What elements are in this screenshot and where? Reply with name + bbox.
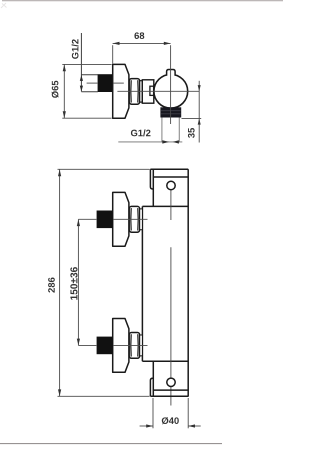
G1/2 label (top-left, rotated) xyxy=(72,39,79,59)
cap on top of valve body (top view) xyxy=(167,70,176,76)
dimension Ø65: dimension line with arrows xyxy=(63,65,66,119)
inlet step notch (top view) xyxy=(150,86,154,95)
dimension 150±36: dimension line with arrows xyxy=(77,219,80,345)
upper inlet union: hex nut xyxy=(129,206,140,232)
lower inlet union: centerline xyxy=(78,344,147,346)
main body bar xyxy=(142,169,188,396)
dimension 68: dimension line with arrows xyxy=(113,42,171,45)
dimension 68: value label xyxy=(134,32,144,39)
wall pipe thread (black) top view xyxy=(98,74,113,92)
150±36 label (rotated) xyxy=(70,267,77,300)
union hex nut (top view) xyxy=(129,79,140,105)
lower inlet union: hex nut xyxy=(129,333,140,359)
G1/2 leader with double arrow at pipe end xyxy=(80,33,83,92)
286 label (rotated) xyxy=(48,278,55,293)
hex nut chamfer arcs (top view) xyxy=(131,80,138,102)
faint corner mark xyxy=(1,3,7,8)
outlet mouth line with G1/2 arrows xyxy=(118,140,182,143)
valve horizontal centerline (top view) xyxy=(117,90,199,92)
body vertical centerline (front view) xyxy=(170,190,172,405)
top mounting bracket xyxy=(150,169,188,206)
top bracket hole xyxy=(167,181,175,189)
Ø40 label xyxy=(162,417,179,424)
Ø65 label (rotated) xyxy=(52,81,59,98)
lower inlet union: escutcheon flange xyxy=(113,319,129,373)
bottom mounting bracket xyxy=(150,361,188,396)
washer ring (top view) xyxy=(140,81,143,102)
upper inlet union: wall thread (black) xyxy=(97,211,113,229)
valve vertical centerline (top view) xyxy=(170,45,172,124)
G1/2 label (bottom of top view) xyxy=(131,129,151,136)
dimension 286: dimension line with arrows xyxy=(58,169,61,396)
dimension Ø40: dimension line with outside arrows xyxy=(140,424,201,427)
page top border xyxy=(2,0,283,2)
lower inlet union: wall thread (black) xyxy=(97,337,113,355)
35 label (rotated) xyxy=(188,128,195,138)
outlet thread ribs xyxy=(161,111,181,114)
dimension Ø65: extension lines xyxy=(62,64,111,118)
dimension 286: extension lines xyxy=(58,169,150,396)
upper inlet union: centerline xyxy=(78,218,147,220)
dimension 35: dimension line with outside arrows xyxy=(198,81,201,143)
lower inlet union: washer xyxy=(140,335,143,356)
wall pipe outline (top view) xyxy=(81,75,97,92)
valve inlet boss (top view) xyxy=(142,80,154,103)
dimension Ø40: extension lines xyxy=(153,398,188,428)
escutcheon flange Ø65 (top view) xyxy=(113,64,129,118)
valve body circle (top view) xyxy=(154,74,188,108)
page bottom border xyxy=(0,443,222,445)
lower inlet union: nut chamfer arcs xyxy=(131,334,138,356)
outlet pipe (top view) xyxy=(162,118,179,142)
upper inlet union: washer xyxy=(140,209,143,230)
bottom bracket hole xyxy=(167,378,175,386)
wall pipe centerline (top view) xyxy=(87,82,124,84)
upper inlet union: nut chamfer arcs xyxy=(131,208,138,230)
outlet thread (black, top view) xyxy=(160,107,181,117)
upper inlet union: escutcheon flange xyxy=(113,192,129,246)
dimension 68: extension line left (wall face) xyxy=(112,45,114,63)
dimension 35: extension line xyxy=(182,117,202,119)
